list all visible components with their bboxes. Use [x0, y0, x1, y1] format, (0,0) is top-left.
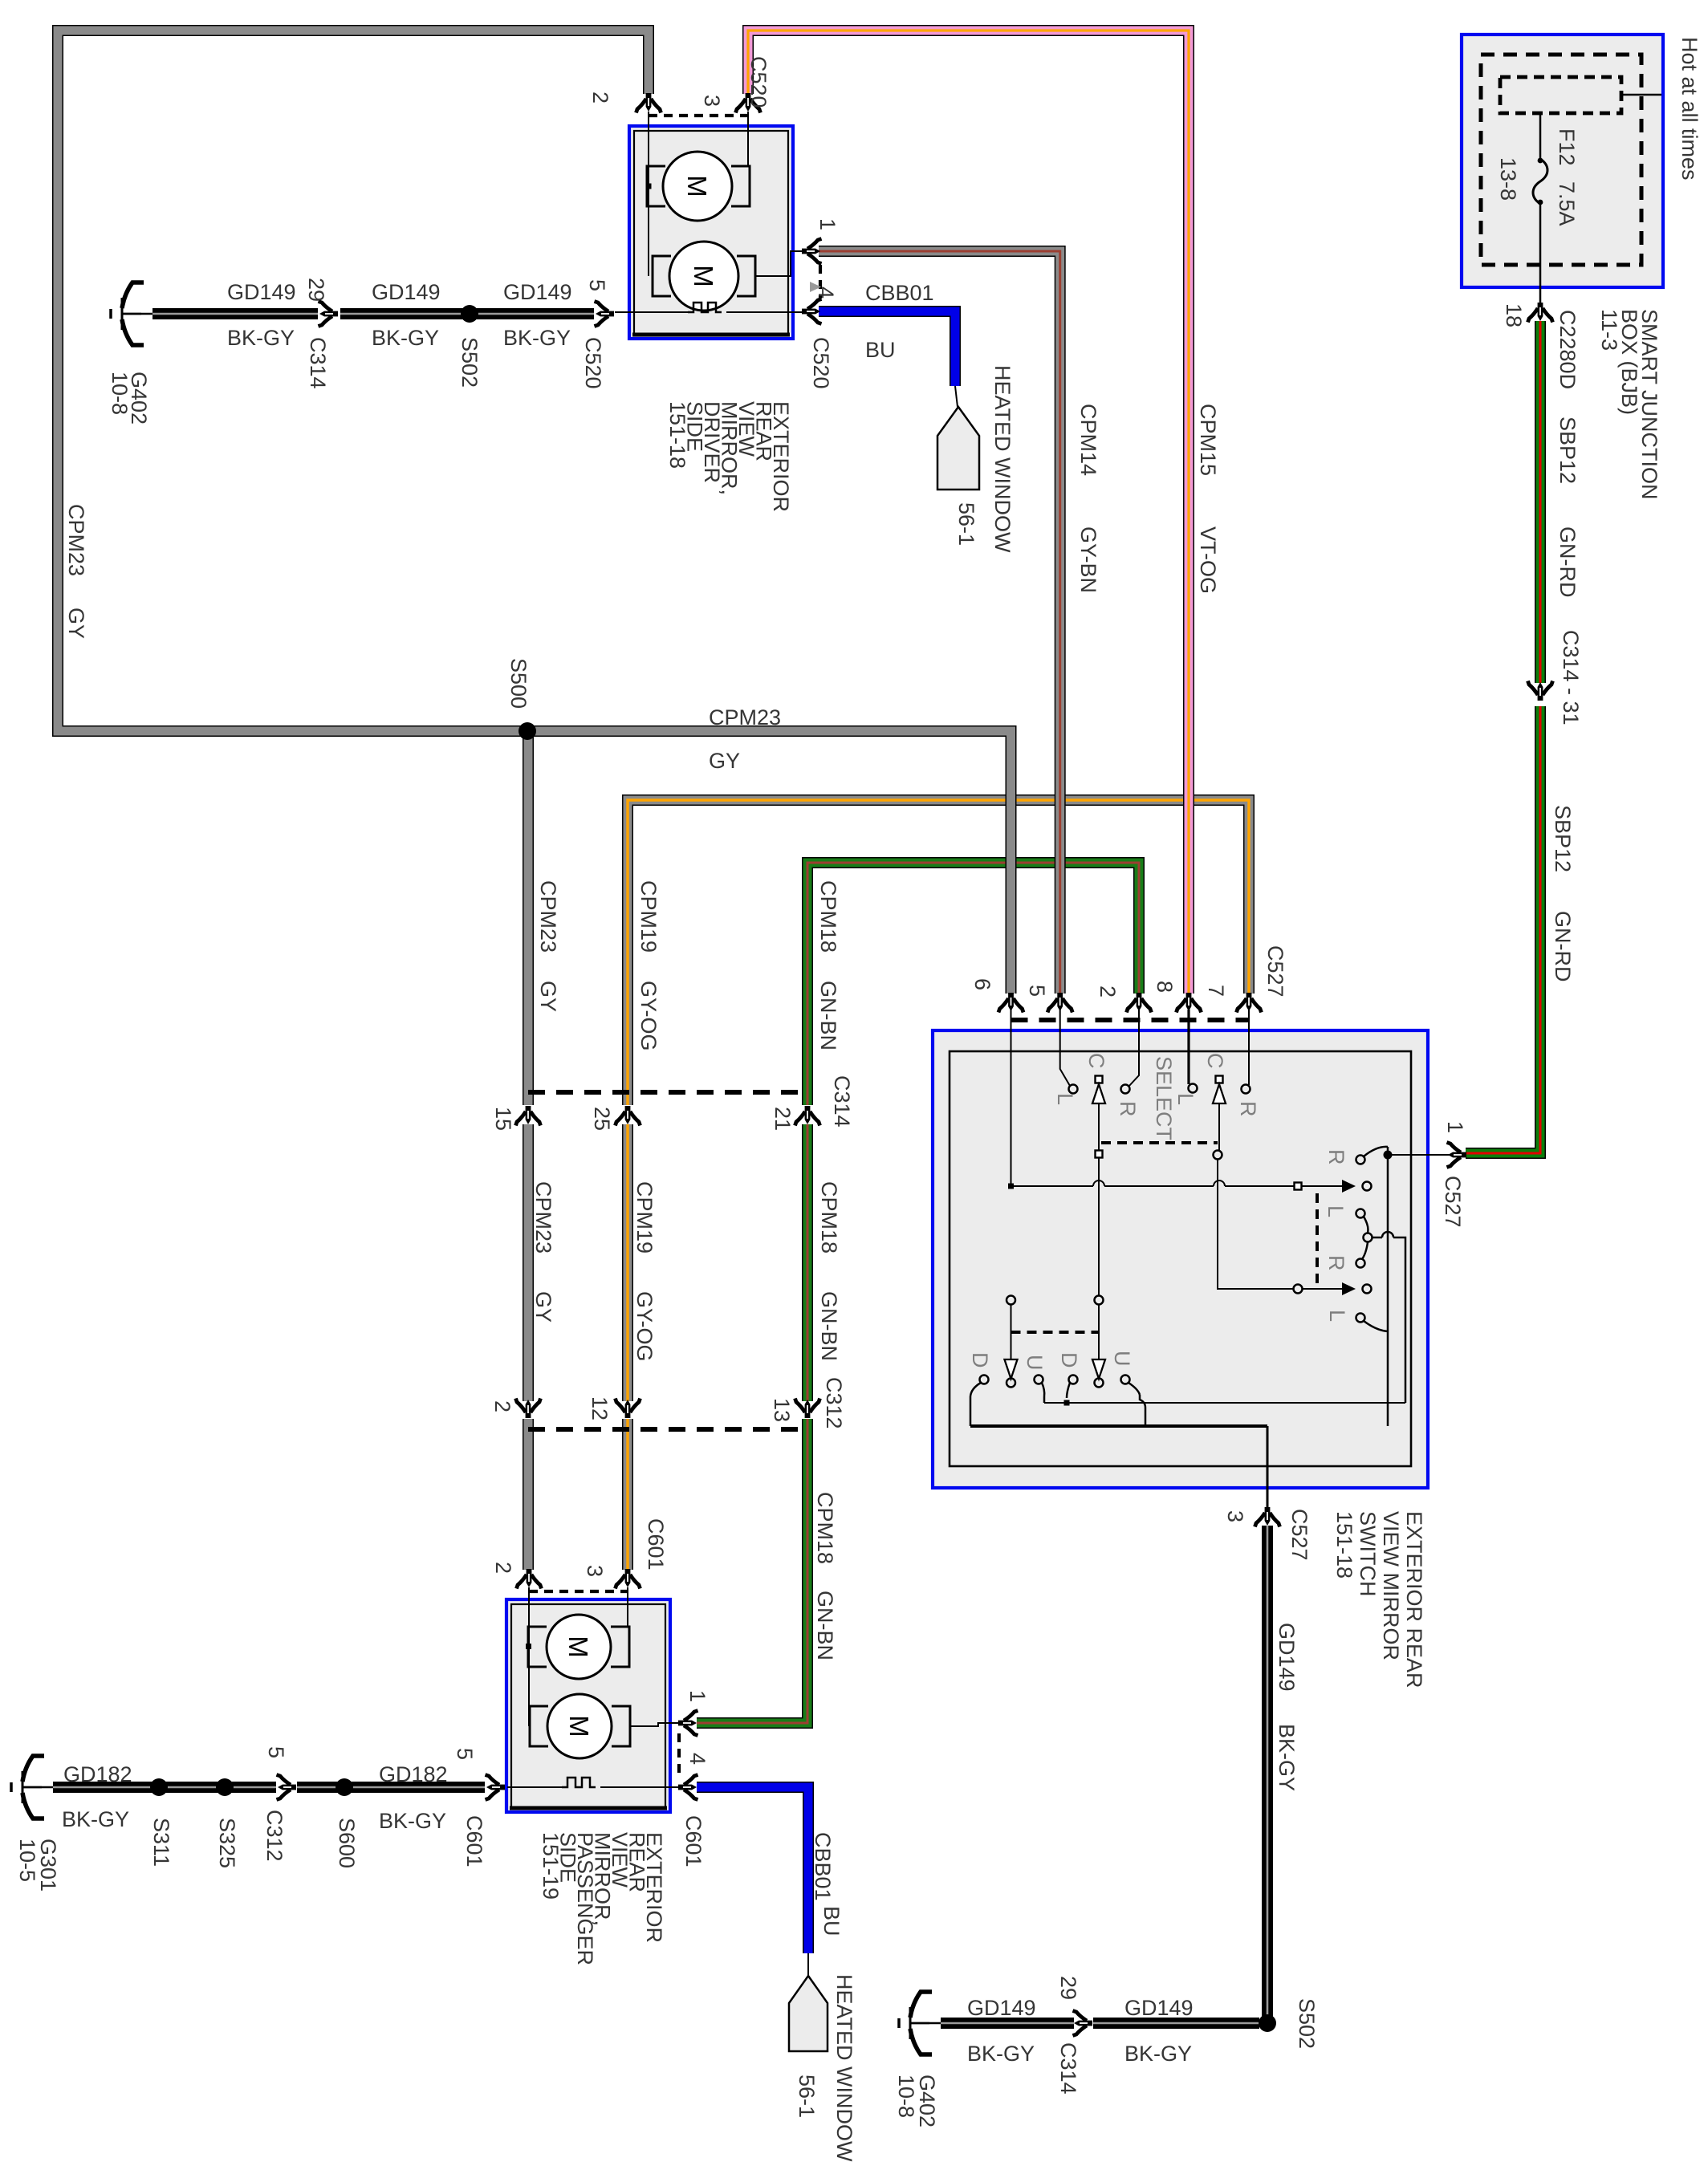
svg-text:BK-GY: BK-GY: [372, 326, 439, 350]
svg-text:BK-GY: BK-GY: [1275, 1724, 1299, 1791]
svg-text:GY: GY: [64, 608, 88, 639]
svg-text:C520: C520: [581, 337, 605, 389]
svg-text:21: 21: [771, 1107, 795, 1131]
svg-text:SWITCH: SWITCH: [1356, 1511, 1380, 1596]
svg-text:C312: C312: [822, 1377, 846, 1429]
svg-text:C: C: [1203, 1053, 1227, 1069]
svg-text:GN-BN: GN-BN: [813, 1591, 837, 1660]
svg-text:10-8: 10-8: [108, 372, 132, 415]
svg-text:13: 13: [770, 1398, 794, 1422]
svg-text:CPM23: CPM23: [64, 504, 88, 576]
svg-text:S502: S502: [1295, 1998, 1319, 2049]
svg-text:GD149: GD149: [1124, 1996, 1194, 2020]
svg-text:2: 2: [1096, 985, 1120, 998]
svg-text:12: 12: [588, 1396, 612, 1420]
svg-text:1: 1: [815, 218, 840, 230]
svg-text:D: D: [1057, 1352, 1081, 1368]
svg-text:C527: C527: [1287, 1509, 1311, 1561]
svg-text:1: 1: [1443, 1121, 1467, 1133]
svg-text:CBB01: CBB01: [811, 1832, 835, 1901]
svg-text:C601: C601: [462, 1815, 486, 1867]
svg-text:BK-GY: BK-GY: [1124, 2042, 1192, 2066]
svg-text:5: 5: [453, 1748, 477, 1760]
svg-text:C527: C527: [1441, 1176, 1465, 1228]
svg-text:7.5A: 7.5A: [1555, 181, 1579, 226]
svg-text:C2280D: C2280D: [1555, 310, 1580, 389]
svg-text:C601: C601: [644, 1518, 668, 1571]
svg-text:10-8: 10-8: [894, 2075, 918, 2118]
svg-text:R: R: [1236, 1101, 1260, 1117]
svg-text:BK-GY: BK-GY: [967, 2042, 1035, 2066]
svg-text:BU: BU: [865, 338, 896, 362]
svg-text:CPM23: CPM23: [709, 705, 781, 729]
svg-text:C314: C314: [306, 337, 330, 389]
svg-text:CPM14: CPM14: [1076, 404, 1100, 476]
svg-text:GD149: GD149: [372, 280, 441, 304]
svg-text:L: L: [1325, 1310, 1349, 1322]
svg-text:5: 5: [585, 279, 609, 291]
svg-text:4: 4: [814, 286, 838, 299]
svg-text:3: 3: [583, 1565, 607, 1577]
svg-text:CPM15: CPM15: [1196, 404, 1220, 476]
svg-text:VT-OG: VT-OG: [1196, 526, 1220, 594]
svg-text:2: 2: [491, 1562, 515, 1574]
svg-text:GY: GY: [531, 1291, 555, 1323]
svg-text:GD149: GD149: [503, 280, 572, 304]
svg-text:GD149: GD149: [1275, 1623, 1299, 1692]
svg-text:M: M: [689, 265, 718, 287]
svg-text:151-19: 151-19: [539, 1832, 563, 1900]
svg-text:GN-RD: GN-RD: [1551, 911, 1575, 982]
svg-text:GN-RD: GN-RD: [1555, 526, 1580, 598]
svg-text:R: R: [1324, 1255, 1348, 1271]
svg-text:CPM18: CPM18: [816, 880, 840, 953]
svg-text:8: 8: [1153, 981, 1177, 993]
svg-text:GD182: GD182: [379, 1762, 448, 1786]
svg-text:SBP12: SBP12: [1551, 805, 1575, 872]
svg-text:GN-BN: GN-BN: [817, 1291, 841, 1361]
svg-text:C314: C314: [1056, 2042, 1080, 2095]
svg-text:U: U: [1023, 1355, 1047, 1371]
svg-text:25: 25: [590, 1107, 614, 1131]
svg-text:GY: GY: [709, 749, 740, 773]
svg-text:56-1: 56-1: [795, 2075, 819, 2118]
svg-text:13-8: 13-8: [1496, 157, 1520, 201]
svg-text:3: 3: [700, 95, 724, 107]
svg-text:C601: C601: [681, 1815, 706, 1867]
svg-text:CPM19: CPM19: [636, 880, 661, 953]
svg-text:GY: GY: [536, 981, 560, 1012]
svg-text:11-3: 11-3: [1597, 309, 1621, 351]
svg-text:29: 29: [1056, 1976, 1080, 2000]
svg-text:151-18: 151-18: [665, 401, 689, 469]
svg-text:S311: S311: [149, 1818, 173, 1867]
svg-text:29: 29: [304, 278, 328, 302]
svg-text:D: D: [968, 1352, 992, 1368]
svg-text:M: M: [563, 1636, 593, 1658]
svg-text:BK-GY: BK-GY: [62, 1807, 129, 1831]
svg-text:2: 2: [588, 91, 612, 104]
svg-text:7: 7: [1204, 985, 1228, 997]
svg-text:4: 4: [685, 1753, 710, 1765]
svg-text:VIEW MIRROR: VIEW MIRROR: [1379, 1511, 1403, 1660]
svg-text:5: 5: [1025, 985, 1049, 997]
svg-text:GD182: GD182: [63, 1762, 132, 1786]
svg-text:Hot at all times: Hot at all times: [1677, 37, 1702, 181]
svg-text:SELECT: SELECT: [1152, 1056, 1176, 1140]
svg-text:15: 15: [491, 1107, 515, 1131]
svg-text:S325: S325: [215, 1818, 239, 1868]
svg-text:BK-GY: BK-GY: [503, 326, 571, 350]
svg-text:SBP12: SBP12: [1555, 417, 1580, 484]
svg-text:C: C: [1084, 1053, 1108, 1069]
svg-text:C314 - 31: C314 - 31: [1559, 630, 1583, 725]
svg-text:56-1: 56-1: [954, 502, 978, 546]
svg-text:C314: C314: [830, 1075, 854, 1128]
svg-text:GY-OG: GY-OG: [636, 981, 661, 1051]
svg-text:C520: C520: [746, 56, 771, 108]
svg-text:2: 2: [490, 1400, 514, 1412]
svg-text:C527: C527: [1263, 945, 1287, 998]
svg-text:HEATED WINDOW: HEATED WINDOW: [832, 1974, 856, 2162]
svg-text:L: L: [1324, 1205, 1348, 1217]
svg-text:151-18: 151-18: [1332, 1511, 1356, 1579]
svg-text:6: 6: [970, 978, 994, 990]
svg-text:1: 1: [685, 1690, 710, 1702]
svg-text:BU: BU: [819, 1906, 844, 1936]
svg-text:R: R: [1324, 1149, 1348, 1165]
svg-text:BK-GY: BK-GY: [379, 1809, 446, 1833]
svg-text:CPM19: CPM19: [632, 1181, 657, 1254]
svg-text:10-5: 10-5: [15, 1839, 39, 1882]
svg-text:M: M: [564, 1715, 594, 1737]
svg-text:S600: S600: [335, 1818, 359, 1868]
svg-text:18: 18: [1502, 303, 1526, 327]
svg-text:L: L: [1173, 1093, 1198, 1105]
svg-text:L: L: [1053, 1093, 1077, 1105]
svg-text:M: M: [682, 175, 712, 197]
svg-text:U: U: [1110, 1351, 1134, 1367]
svg-text:3: 3: [1223, 1510, 1247, 1522]
svg-text:F12: F12: [1555, 128, 1579, 166]
svg-text:CPM23: CPM23: [531, 1181, 555, 1254]
svg-text:S502: S502: [458, 337, 482, 388]
svg-text:BK-GY: BK-GY: [227, 326, 295, 350]
svg-text:GD149: GD149: [967, 1996, 1036, 2020]
svg-text:GY-BN: GY-BN: [1076, 526, 1100, 593]
svg-text:CPM18: CPM18: [813, 1492, 837, 1564]
svg-text:S500: S500: [506, 658, 531, 709]
svg-text:GN-BN: GN-BN: [816, 981, 840, 1050]
svg-text:EXTERIOR REAR: EXTERIOR REAR: [1402, 1511, 1426, 1688]
svg-text:HEATED WINDOW: HEATED WINDOW: [990, 365, 1015, 553]
svg-text:C312: C312: [262, 1810, 287, 1862]
svg-text:5: 5: [264, 1746, 288, 1758]
svg-text:CPM23: CPM23: [536, 880, 560, 953]
svg-text:CBB01: CBB01: [865, 281, 934, 305]
svg-text:GY-OG: GY-OG: [632, 1291, 657, 1362]
svg-text:CPM18: CPM18: [817, 1181, 841, 1254]
svg-text:GD149: GD149: [227, 280, 296, 304]
svg-text:R: R: [1116, 1101, 1140, 1117]
svg-text:C520: C520: [809, 337, 833, 389]
